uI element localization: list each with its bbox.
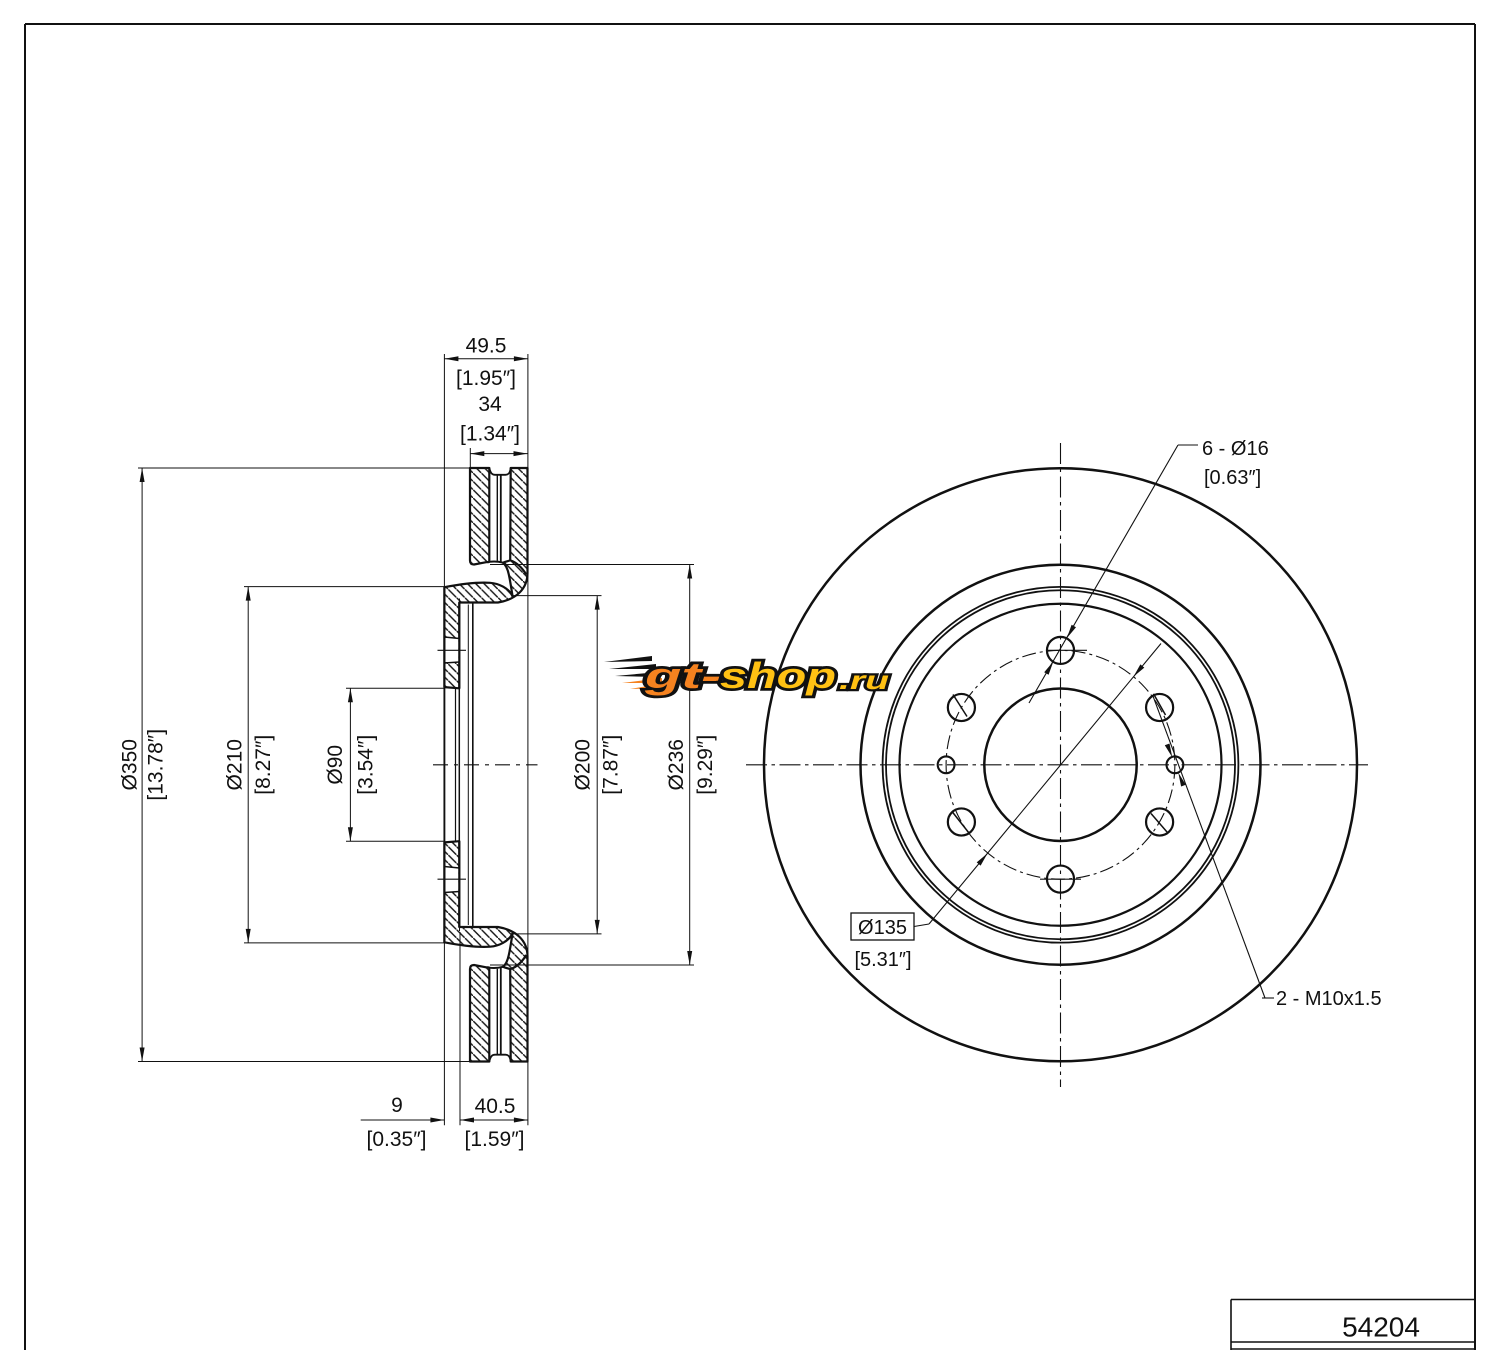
svg-text:54204: 54204 <box>1342 1312 1420 1343</box>
svg-text:[1.34″]: [1.34″] <box>460 423 520 446</box>
section: inboard friction plate (upper half), hatched <box>470 468 489 565</box>
svg-text:[8.27″]: [8.27″] <box>252 735 275 795</box>
dimension 34 (friction ring width) <box>469 448 471 468</box>
dimension 49.5 (total width) <box>443 354 445 587</box>
svg-text:Ø236: Ø236 <box>665 739 688 790</box>
svg-text:Ø200: Ø200 <box>572 739 595 790</box>
dimension Ø200 with extension lines <box>513 595 602 597</box>
front view: pilot bore Ø90 <box>984 689 1136 841</box>
section: vent inlet shelf segment (upper) <box>489 562 503 563</box>
boxed label Ø135 <box>851 913 914 940</box>
vertical centerline of front view <box>1060 443 1062 1087</box>
front view: arc dash through top bolt hole <box>1046 649 1087 651</box>
watermark logo gt-shop.ru <box>604 655 889 696</box>
section: vent inlet shelf segment (lower) <box>489 967 503 968</box>
svg-text:[0.35″]: [0.35″] <box>367 1128 427 1151</box>
front view: slash marks in diagonal bolt holes <box>953 695 967 717</box>
leader line for 2-M10x1.5 label <box>1153 696 1265 998</box>
dimension 9 (flange thickness) <box>443 943 445 1125</box>
section: hub face step edge (lower) <box>459 910 461 932</box>
svg-text:[3.54″]: [3.54″] <box>355 735 378 795</box>
svg-text:[1.95″]: [1.95″] <box>456 367 516 390</box>
front view: hat chamfer edge <box>886 590 1235 939</box>
horizontal centerline through front view <box>746 764 1368 766</box>
svg-text:Ø350: Ø350 <box>119 739 142 790</box>
section: mounting face edge lines across bolt holes <box>443 587 445 687</box>
section: vent vane edge lines (lower) <box>496 969 498 1055</box>
section: outboard plate underside fillet edge (lower) <box>511 955 527 969</box>
svg-text:gt-: gt- <box>643 655 721 696</box>
svg-text:[7.87″]: [7.87″] <box>599 735 622 795</box>
svg-text:shop: shop <box>720 655 836 696</box>
svg-text:[5.31″]: [5.31″] <box>854 949 911 971</box>
svg-text:Ø135: Ø135 <box>858 917 907 939</box>
section: hat interior silhouette edges <box>467 605 469 926</box>
svg-text:[1.59″]: [1.59″] <box>465 1128 525 1151</box>
title block <box>1231 1299 1475 1301</box>
dimension Ø90 with extension lines <box>346 687 444 689</box>
svg-text:9: 9 <box>391 1094 403 1117</box>
front view: arc dash through bottom bolt hole <box>1040 878 1081 880</box>
svg-text:2 - M10x1.5: 2 - M10x1.5 <box>1276 988 1382 1010</box>
front view: hat outer edge Ø210 <box>883 587 1239 943</box>
section: outboard plate underside fillet edge (upper) <box>511 561 527 575</box>
svg-text:6 - Ø16: 6 - Ø16 <box>1202 438 1269 460</box>
svg-text:.ru: .ru <box>839 665 889 695</box>
front view: 6 wheel bolt holes Ø16 <box>1047 637 1074 664</box>
bolt circle diameter line Ø135 <box>929 644 1161 925</box>
svg-text:34: 34 <box>478 393 502 416</box>
svg-text:40.5: 40.5 <box>475 1095 516 1118</box>
svg-text:Ø210: Ø210 <box>224 739 247 790</box>
front view: bolt circle Ø135 (dash-dot) <box>946 650 1175 879</box>
drawing frame border <box>25 23 1475 25</box>
section: vent vane bottom curve (lower) <box>489 1055 510 1062</box>
front view: outer diameter Ø350 <box>764 468 1357 1061</box>
section: hub face step edge (upper) <box>459 599 461 621</box>
dimension Ø236 with extension lines <box>490 564 694 566</box>
section: outboard plate + hat + mounting flange (upper half), hatched <box>444 468 527 688</box>
dimension Ø210 with extension lines <box>244 586 446 588</box>
section: inboard friction plate (lower half), hatched <box>470 965 489 1062</box>
section: wheel-bolt hole cut (unhatched band) <box>445 868 458 892</box>
front view: friction surface inner edge Ø236 <box>861 565 1261 965</box>
section: bolt hole centerline <box>438 878 467 880</box>
svg-text:Ø90: Ø90 <box>324 745 347 785</box>
svg-text:49.5: 49.5 <box>466 335 507 358</box>
svg-text:[0.63″]: [0.63″] <box>1204 467 1261 489</box>
section: wheel-bolt hole cut (unhatched band) <box>445 638 458 662</box>
section: pilot bore far-side edges <box>443 687 445 842</box>
front view: 2 thread holes M10 <box>938 756 955 773</box>
svg-text:[13.78″]: [13.78″] <box>144 729 167 801</box>
section: vent vane edge lines (upper) <box>496 475 498 561</box>
section: outboard plate + hat + mounting flange (lower half), hatched <box>444 841 527 1061</box>
front view: hub step edge Ø190 <box>900 604 1222 926</box>
svg-text:[9.29″]: [9.29″] <box>694 735 717 795</box>
dimension 40.5 (hat depth) <box>460 1119 528 1121</box>
section: bolt hole centerline <box>438 649 467 651</box>
dimension Ø350 with extension lines <box>138 467 470 469</box>
section: vent vane top curve (upper) <box>489 468 510 475</box>
horizontal centerline through section view <box>433 764 538 766</box>
leader line for 6-Ø16 label <box>1178 444 1198 446</box>
